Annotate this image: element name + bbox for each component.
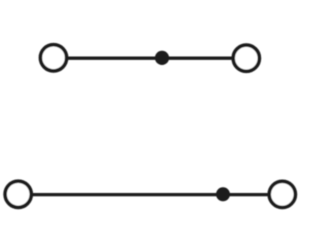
junction node: upper bus tap xyxy=(155,51,169,65)
terminal contact 2.2 (lower right clamp circle) xyxy=(269,181,295,207)
junction node: lower bus tap xyxy=(216,187,230,201)
wire: upper level bus xyxy=(54,57,247,60)
terminal contact 1.2 (upper right clamp circle) xyxy=(233,45,259,71)
wire: lower level bus xyxy=(18,193,282,196)
terminal contact 2.1 (lower left clamp circle) xyxy=(5,181,31,207)
terminal contact 1.1 (upper left clamp circle) xyxy=(40,45,66,71)
